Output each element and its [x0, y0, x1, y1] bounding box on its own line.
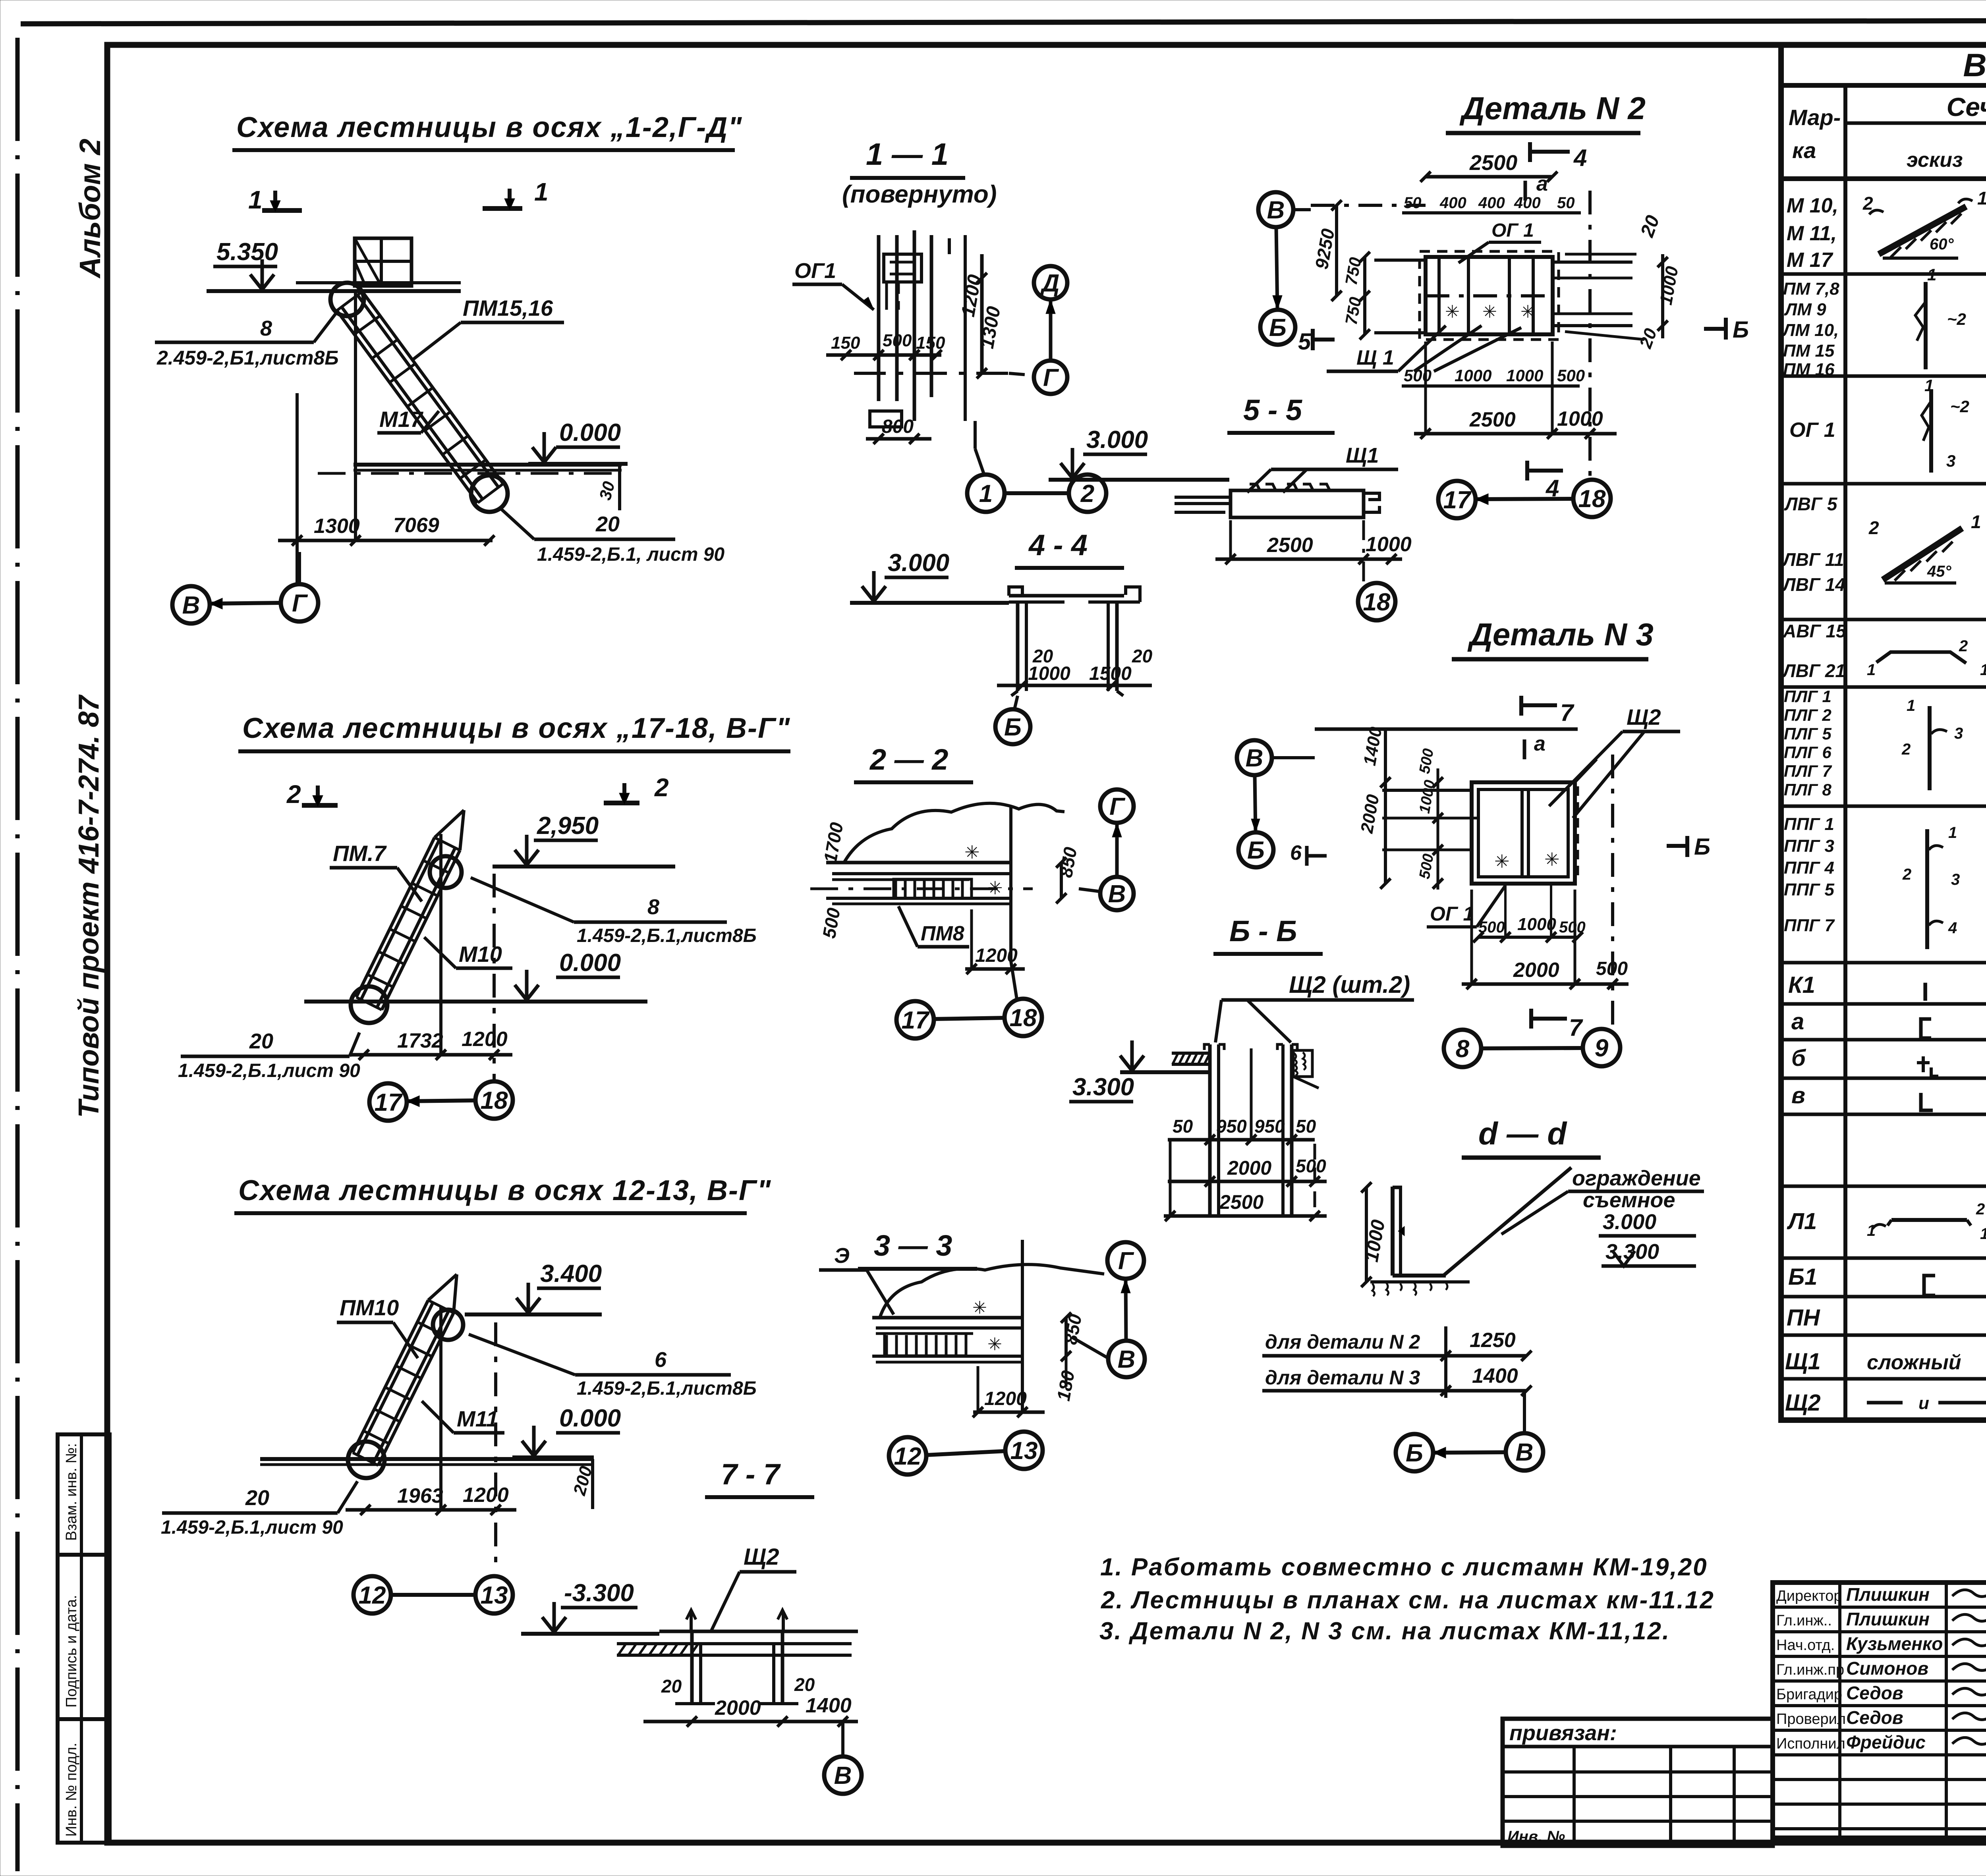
- detail N3 plan: [1382, 759, 1597, 884]
- svg-text:ПЛГ 8: ПЛГ 8: [1784, 780, 1832, 799]
- scheme 1 ref 8 / 2.459-2,Б1,лист86: [155, 314, 339, 369]
- svg-text:1: 1: [1867, 1222, 1876, 1239]
- section 1-1 title: [842, 137, 997, 208]
- svg-text:1.459-2,Б.1,лист 90: 1.459-2,Б.1,лист 90: [178, 1060, 360, 1081]
- svg-text:9: 9: [1595, 1035, 1609, 1062]
- svg-text:Б: Б: [1694, 834, 1710, 860]
- svg-text:18: 18: [481, 1087, 508, 1114]
- svg-text:1500: 1500: [1089, 663, 1132, 684]
- svg-text:М 17: М 17: [1787, 249, 1833, 272]
- detail N2 section mark 5 left: [1298, 329, 1335, 355]
- section d-d label ограждение съемное: [1501, 1166, 1704, 1234]
- scheme 1 ref 20 / 1.459-2,Б.1,лист 90: [501, 509, 724, 565]
- outer sheet border left (dash-dot): [15, 38, 20, 1871]
- svg-text:3.000: 3.000: [1086, 426, 1148, 454]
- svg-text:400: 400: [1478, 194, 1505, 212]
- svg-text:В: В: [182, 592, 200, 619]
- svg-text:Гл.инж..: Гл.инж..: [1776, 1612, 1832, 1629]
- svg-text:1200: 1200: [462, 1028, 508, 1051]
- scheme 1 dimension 1300 7069: [278, 290, 495, 584]
- svg-text:Фрейдис: Фрейдис: [1846, 1732, 1926, 1752]
- svg-text:0.000: 0.000: [559, 949, 621, 977]
- svg-text:ПМ15,16: ПМ15,16: [463, 295, 553, 320]
- svg-text:Г: Г: [292, 590, 308, 617]
- svg-text:Плишкин: Плишкин: [1846, 1584, 1930, 1605]
- scheme 1 label М17: [377, 407, 439, 433]
- svg-text:2000: 2000: [1227, 1157, 1271, 1179]
- svg-text:20: 20: [249, 1029, 273, 1053]
- svg-text:1: 1: [1927, 265, 1936, 284]
- scheme 3 ladder: [353, 1274, 457, 1465]
- section 1-1 dims 1300 1200 vertical: [958, 254, 1005, 378]
- svg-text:Щ1: Щ1: [1346, 444, 1379, 467]
- scheme 3 label ПМ10: [337, 1295, 418, 1358]
- svg-text:2,950: 2,950: [537, 812, 599, 840]
- section 4-4 title: [1015, 529, 1124, 568]
- svg-text:Д: Д: [1040, 270, 1060, 297]
- svg-text:12: 12: [359, 1582, 386, 1609]
- section 5-5 level 3.000: [1049, 426, 1229, 480]
- scheme 1 ladder: [337, 291, 503, 503]
- svg-text:Схема лестницы в осях „1-2,Г: Схема лестницы в осях „1-2,Г-Д": [236, 112, 742, 143]
- svg-text:Директор: Директор: [1776, 1588, 1842, 1604]
- section d-d title: [1462, 1116, 1601, 1158]
- svg-text:✳: ✳: [1520, 302, 1535, 322]
- svg-text:В: В: [1267, 197, 1285, 224]
- detail N3 level line: [1315, 729, 1578, 759]
- svg-text:4 - 4: 4 - 4: [1028, 529, 1088, 562]
- detail N3 title: [1452, 617, 1654, 659]
- svg-text:1.459-2,Б.1,лист8Б: 1.459-2,Б.1,лист8Б: [577, 925, 757, 946]
- svg-text:ППГ 5: ППГ 5: [1784, 880, 1835, 899]
- svg-text:Мар-: Мар-: [1789, 105, 1841, 130]
- section 3-3 label Э: [819, 1244, 894, 1314]
- table col 2: sketches: [1862, 188, 1986, 1413]
- detail N2 left vertical dims: [1311, 200, 1370, 340]
- section 5-5 axis circle 18: [1358, 583, 1395, 620]
- svg-text:ОГ 1: ОГ 1: [1789, 419, 1835, 442]
- detail N2 section mark 4 top: [1530, 142, 1587, 171]
- left margin label: Альбом 2 (rotated): [73, 139, 106, 279]
- svg-text:привязан:: привязан:: [1509, 1721, 1617, 1745]
- scheme 2 level 0.000 and ground: [304, 949, 647, 1002]
- svg-text:и: и: [1918, 1393, 1929, 1413]
- svg-text:500: 500: [883, 331, 912, 350]
- svg-text:2: 2: [1868, 517, 1879, 538]
- section 3-3 axis circles 12 13: [889, 1432, 1043, 1475]
- svg-text:✳: ✳: [1482, 302, 1497, 322]
- svg-text:ОГ 1: ОГ 1: [1430, 903, 1474, 925]
- scheme 2 ref 20 / 1.459-2,Б.1,лист90: [178, 1029, 360, 1081]
- svg-text:✳: ✳: [987, 1335, 1002, 1354]
- detail N2 right dims 20 1000 20: [1565, 212, 1682, 351]
- svg-text:для детали N 2: для детали N 2: [1265, 1331, 1420, 1353]
- svg-text:5: 5: [1298, 329, 1311, 355]
- detail N2 section mark 4 bottom: [1527, 461, 1563, 502]
- svg-text:3.000: 3.000: [888, 549, 949, 577]
- scheme 1 bottom axis dash-dot: [318, 472, 622, 475]
- svg-text:1: 1: [1971, 511, 1981, 532]
- svg-text:2500: 2500: [1469, 151, 1517, 175]
- svg-text:Нач.отд.: Нач.отд.: [1776, 1637, 1835, 1654]
- svg-text:1: 1: [1924, 376, 1934, 395]
- svg-text:3: 3: [1954, 725, 1963, 742]
- svg-text:Б1: Б1: [1788, 1264, 1817, 1290]
- svg-text:13: 13: [481, 1582, 508, 1609]
- scheme 2 axis circles 17 18: [369, 1081, 513, 1121]
- svg-text:1: 1: [248, 185, 263, 214]
- svg-text:ПМ 16: ПМ 16: [1783, 360, 1835, 379]
- svg-text:20: 20: [661, 1676, 682, 1697]
- detail N2 axis circles 17 18: [1438, 480, 1611, 518]
- section 2-2 axis circles 17 18: [896, 961, 1042, 1038]
- svg-text:Взам. инв. №:: Взам. инв. №:: [63, 1443, 80, 1541]
- svg-text:Седов: Седов: [1846, 1683, 1903, 1703]
- scheme 2 ref 8 / 1.459-2,Б.1,лист82: [471, 878, 757, 946]
- svg-text:ПЛГ 7: ПЛГ 7: [1784, 762, 1832, 780]
- svg-text:Схема лестницы в осях 12-13,: Схема лестницы в осях 12-13, В-Г": [238, 1175, 771, 1206]
- svg-text:50: 50: [1557, 194, 1575, 212]
- svg-text:3: 3: [1951, 871, 1960, 888]
- bottom notes: [1099, 1554, 1715, 1645]
- svg-text:Б: Б: [1733, 317, 1749, 343]
- привязан table: [1503, 1719, 1773, 1846]
- svg-text:2500: 2500: [1267, 534, 1313, 557]
- section 7-7 level -3.300: [521, 1579, 659, 1634]
- scheme 3 top node: [433, 1310, 463, 1340]
- scheme 1 top node: [330, 283, 364, 316]
- scheme 3 ref 6 / 1.459-2,Б.1,лист8Б: [469, 1334, 757, 1399]
- svg-text:20: 20: [245, 1486, 269, 1510]
- svg-text:В: В: [1516, 1439, 1534, 1466]
- title block stamp (names): [1773, 1583, 1986, 1838]
- svg-text:17: 17: [902, 1007, 930, 1034]
- svg-text:500: 500: [1296, 1156, 1326, 1176]
- scheme 3 label М11: [422, 1401, 504, 1433]
- section 1-1 axis circles 1 2: [967, 449, 1106, 512]
- svg-text:2: 2: [1901, 741, 1911, 758]
- svg-text:1200: 1200: [984, 1388, 1027, 1409]
- svg-text:ЛВГ 5: ЛВГ 5: [1784, 494, 1838, 514]
- svg-text:а: а: [1534, 732, 1546, 755]
- detail N2 title: [1446, 91, 1646, 133]
- svg-text:Б: Б: [1004, 714, 1022, 741]
- svg-text:1300: 1300: [314, 515, 360, 538]
- svg-text:для детали N 3: для детали N 3: [1265, 1366, 1420, 1389]
- svg-text:0.000: 0.000: [559, 419, 621, 446]
- scheme 1 axis circles В Г: [172, 552, 318, 623]
- svg-text:50: 50: [1296, 1116, 1316, 1137]
- svg-text:45°: 45°: [1927, 563, 1951, 580]
- svg-text:ПМ10: ПМ10: [340, 1295, 399, 1320]
- svg-text:1: 1: [1907, 697, 1915, 714]
- svg-text:1.459-2,Б.1,лист8Б: 1.459-2,Б.1,лист8Б: [577, 1378, 757, 1399]
- section 3-3 title: [858, 1229, 977, 1269]
- svg-text:ОГ 1: ОГ 1: [1491, 220, 1534, 241]
- table header texts: [1789, 92, 1986, 175]
- detail N3 label Щ2: [1549, 704, 1680, 818]
- svg-text:500: 500: [1404, 366, 1432, 385]
- svg-text:ПЛГ 5: ПЛГ 5: [1784, 724, 1832, 743]
- section d-d railing drawing: [1361, 1168, 1571, 1296]
- svg-text:1: 1: [1980, 1225, 1986, 1243]
- svg-text:Альбом 2: Альбом 2: [73, 139, 106, 279]
- svg-text:50: 50: [1173, 1116, 1193, 1137]
- svg-text:3.400: 3.400: [540, 1260, 602, 1287]
- svg-text:1: 1: [1977, 188, 1986, 208]
- svg-text:ЛВГ 11: ЛВГ 11: [1782, 549, 1844, 570]
- svg-text:3 — 3: 3 — 3: [874, 1229, 952, 1262]
- svg-text:Б - Б: Б - Б: [1229, 915, 1297, 948]
- scheme 2 label М10: [424, 937, 512, 968]
- detail N2 dims 50 400 400 400 50: [1402, 194, 1581, 213]
- svg-text:1: 1: [534, 178, 549, 206]
- svg-text:18: 18: [1578, 485, 1606, 513]
- svg-text:1000: 1000: [1455, 366, 1491, 385]
- table col 1: mark labels: [1782, 194, 1847, 1416]
- svg-text:3.300: 3.300: [1072, 1073, 1134, 1101]
- svg-text:1 — 1: 1 — 1: [866, 137, 949, 172]
- detail N3 dims 2000 500: [1462, 755, 1629, 1033]
- svg-text:ПМ 7,8: ПМ 7,8: [1783, 279, 1839, 299]
- section d-d notes для детали: [1262, 1326, 1532, 1398]
- svg-text:400: 400: [1514, 194, 1541, 212]
- svg-text:М 11,: М 11,: [1787, 222, 1837, 245]
- svg-text:Г: Г: [1043, 364, 1059, 392]
- svg-text:ПМ.7: ПМ.7: [333, 841, 387, 866]
- svg-text:Инв. №: Инв. №: [1507, 1828, 1565, 1845]
- svg-text:ПЛГ 6: ПЛГ 6: [1784, 743, 1832, 762]
- svg-text:800: 800: [882, 416, 914, 437]
- svg-text:1963: 1963: [397, 1484, 443, 1507]
- svg-text:✳: ✳: [1445, 302, 1460, 322]
- svg-text:1.459-2,Б.1,лист 90: 1.459-2,Б.1,лист 90: [161, 1517, 343, 1538]
- svg-text:1: 1: [979, 480, 993, 508]
- svg-text:2: 2: [1976, 1200, 1985, 1218]
- detail N3 label ОГ1: [1427, 886, 1505, 927]
- section 6-6 drawing: [1172, 1044, 1319, 1215]
- svg-text:7: 7: [1560, 699, 1575, 726]
- section d-d axis circles Б В: [1396, 1391, 1543, 1471]
- svg-text:В: В: [834, 1762, 852, 1789]
- svg-text:Г: Г: [1109, 793, 1126, 820]
- svg-text:950: 950: [1254, 1116, 1285, 1137]
- svg-text:~2: ~2: [1950, 397, 1969, 416]
- svg-text:Щ1: Щ1: [1785, 1349, 1821, 1374]
- section 4-4 circle Б: [995, 696, 1030, 744]
- svg-text:Бригадир: Бригадир: [1776, 1686, 1842, 1703]
- svg-text:Щ 1: Щ 1: [1356, 346, 1394, 369]
- scheme 1 section marks 1-1: [248, 178, 549, 214]
- svg-text:8: 8: [260, 317, 272, 340]
- svg-text:1200: 1200: [463, 1484, 509, 1507]
- section 3-3 dims: [973, 1312, 1086, 1417]
- svg-text:ЛВГ 21: ЛВГ 21: [1782, 660, 1845, 681]
- svg-text:20: 20: [794, 1674, 815, 1695]
- svg-text:Исполнил: Исполнил: [1776, 1735, 1845, 1752]
- scheme 2 section marks 2-2: [286, 773, 669, 809]
- scheme 1 bottom node: [471, 475, 508, 512]
- scheme 3 ground and level 0.000: [260, 1405, 621, 1509]
- svg-text:Седов: Седов: [1846, 1707, 1903, 1728]
- detail N2 axis circles В Б left: [1258, 192, 1311, 345]
- svg-text:8: 8: [1456, 1035, 1470, 1063]
- svg-text:ПЛГ 2: ПЛГ 2: [1784, 706, 1831, 724]
- svg-text:1000: 1000: [1366, 533, 1412, 556]
- section 5-5 label Щ1: [1247, 444, 1398, 492]
- section 4-4 level 3.000: [850, 549, 1009, 603]
- scheme 2 level 2,950: [493, 812, 675, 867]
- svg-text:17: 17: [1443, 486, 1472, 514]
- svg-text:ППГ 3: ППГ 3: [1784, 836, 1834, 856]
- svg-text:1: 1: [1948, 824, 1957, 841]
- section 3-3 drawing: [872, 1240, 1104, 1414]
- svg-text:7: 7: [1569, 1014, 1583, 1041]
- svg-text:Э: Э: [834, 1244, 850, 1268]
- svg-text:2: 2: [1080, 480, 1094, 508]
- section 7-7 title: [705, 1458, 814, 1497]
- svg-text:Г: Г: [1118, 1247, 1134, 1275]
- left margin label: Типовой проект 416-7-274.87 (rotated): [73, 694, 105, 1118]
- svg-text:Б: Б: [1406, 1440, 1423, 1467]
- svg-text:М11: М11: [457, 1406, 498, 1431]
- svg-text:1: 1: [1867, 661, 1876, 679]
- svg-text:17: 17: [375, 1089, 403, 1116]
- svg-text:400: 400: [1439, 194, 1466, 212]
- svg-text:в: в: [1791, 1083, 1805, 1108]
- svg-text:Ведомость элементов: Ведомость элементов: [1963, 47, 1986, 83]
- scheme 1 ground line and level 0.000: [354, 419, 628, 510]
- svg-text:(повернуто): (повернуто): [842, 181, 997, 208]
- svg-text:2500: 2500: [1469, 408, 1516, 431]
- svg-text:а: а: [1791, 1009, 1804, 1035]
- svg-text:1.459-2,Б.1, лист 90: 1.459-2,Б.1, лист 90: [537, 544, 724, 565]
- section 7-7 drawing: [617, 1610, 858, 1704]
- scheme 2 bottom node: [351, 986, 387, 1023]
- table title text: [1963, 47, 1986, 83]
- scheme 3 bottom node: [348, 1442, 384, 1478]
- svg-text:Л1: Л1: [1787, 1208, 1817, 1234]
- svg-text:В: В: [1118, 1346, 1136, 1373]
- svg-text:АВГ 15: АВГ 15: [1783, 621, 1847, 641]
- svg-text:ограждение: ограждение: [1572, 1166, 1701, 1190]
- svg-text:7 - 7: 7 - 7: [721, 1458, 781, 1491]
- svg-text:Деталь N 3: Деталь N 3: [1467, 617, 1654, 652]
- svg-text:ПМ 15: ПМ 15: [1783, 341, 1835, 361]
- svg-text:8: 8: [647, 895, 659, 919]
- svg-text:Щ2: Щ2: [1785, 1390, 1821, 1416]
- svg-text:4: 4: [1573, 145, 1587, 171]
- detail N2 dim 2500 top: [1420, 151, 1557, 201]
- detail N2 label Щ1 and bottom dims: [1327, 326, 1585, 386]
- left margin stamp cells: [58, 1434, 110, 1843]
- svg-text:5 - 5: 5 - 5: [1243, 394, 1303, 427]
- svg-text:сложный: сложный: [1867, 1351, 1961, 1374]
- svg-text:1250: 1250: [1470, 1329, 1516, 1352]
- svg-text:1. Работать совместно с лист: 1. Работать совместно с листамн КМ-19,20: [1100, 1554, 1708, 1581]
- svg-text:4: 4: [1948, 919, 1957, 937]
- svg-text:2: 2: [286, 780, 301, 809]
- section 6-6 dims 2000 500: [1168, 1156, 1327, 1187]
- detail N2 section mark Б right: [1704, 317, 1749, 343]
- svg-text:Подпись и дата.: Подпись и дата.: [63, 1595, 80, 1708]
- section 2-2 label ПМ8: [898, 906, 969, 947]
- svg-text:13: 13: [1010, 1437, 1038, 1465]
- section 6-6 label Щ2 (шт.2): [1215, 971, 1414, 1042]
- svg-text:В: В: [1246, 745, 1263, 772]
- scheme 2 dimension 1732 1200: [350, 834, 512, 1082]
- detail N3 section mark 7 bottom: [1531, 1009, 1583, 1041]
- svg-text:3: 3: [1946, 452, 1955, 470]
- detail N3 bottom dims 500 1000 500: [1473, 886, 1586, 942]
- svg-text:ка: ка: [1792, 138, 1816, 163]
- section 7-7 label Щ2: [711, 1544, 796, 1631]
- section 1-1 circles Д Г: [1009, 266, 1067, 394]
- section 2-2 title: [854, 743, 973, 782]
- svg-text:М 10,: М 10,: [1787, 194, 1838, 217]
- svg-text:18: 18: [1363, 589, 1391, 616]
- svg-text:6: 6: [655, 1348, 667, 1372]
- scheme 3 ref 20 / 1.459-2,Б.1,лист 90: [161, 1481, 357, 1538]
- svg-text:эскиз: эскиз: [1907, 149, 1963, 172]
- svg-text:ПН: ПН: [1787, 1305, 1820, 1331]
- svg-text:Щ2 (шт.2): Щ2 (шт.2): [1289, 971, 1410, 998]
- section 2-2 drawing: [810, 803, 1064, 961]
- svg-text:Типовой проект 416-7-274. 87: Типовой проект 416-7-274. 87: [73, 694, 105, 1118]
- svg-text:150: 150: [916, 333, 945, 353]
- svg-text:2 — 2: 2 — 2: [869, 743, 948, 776]
- svg-text:Схема лестницы в осях „17-18: Схема лестницы в осях „17-18, В-Г": [242, 712, 790, 744]
- section 6-6 dims 50 950 950 50: [1168, 1048, 1316, 1145]
- svg-text:Плишкин: Плишкин: [1846, 1609, 1930, 1629]
- svg-text:1732: 1732: [397, 1029, 443, 1052]
- scheme 3 level 3.400: [465, 1260, 602, 1314]
- svg-text:20: 20: [595, 512, 620, 536]
- detail N3 section mark 7 top: [1521, 696, 1575, 726]
- section 4-4 dims 20 20 1000 1500: [997, 646, 1153, 691]
- svg-text:I: I: [1922, 977, 1929, 1006]
- svg-text:В: В: [1108, 880, 1126, 908]
- svg-text:Деталь N 2: Деталь N 2: [1459, 91, 1646, 126]
- svg-text:2: 2: [654, 773, 669, 802]
- svg-text:d — d: d — d: [1478, 1116, 1567, 1151]
- section 7-7 dims 20 20 2000 1400: [643, 1674, 858, 1727]
- scheme 2 ladder: [356, 810, 464, 1010]
- svg-text:Сечение: Сечение: [1947, 92, 1986, 122]
- section 6-6 level 3.300: [1069, 1040, 1208, 1102]
- scheme 1 title: [232, 112, 742, 150]
- scheme 3 dimension 1963 1200: [346, 1307, 516, 1573]
- section 5-5 title: [1227, 394, 1335, 433]
- section 2-2 dims: [819, 821, 1081, 974]
- section 3-3 circles Г В: [1072, 1242, 1145, 1377]
- svg-text:2000: 2000: [715, 1697, 761, 1720]
- section 1-1 label ОГ1: [792, 259, 874, 310]
- svg-text:-3.300: -3.300: [564, 1579, 634, 1607]
- svg-text:20: 20: [1132, 646, 1153, 666]
- scheme 2 top node: [430, 856, 462, 888]
- svg-text:5.350: 5.350: [216, 238, 278, 266]
- scheme 1 top platform: [296, 238, 461, 291]
- svg-text:ЛВГ 14: ЛВГ 14: [1782, 574, 1845, 595]
- svg-text:Щ2: Щ2: [1627, 704, 1661, 730]
- element list table: Ведомость элементов: [1781, 45, 1986, 1420]
- svg-text:М17: М17: [379, 407, 424, 432]
- svg-text:500: 500: [1557, 366, 1585, 385]
- detail N3 left dims: [1357, 725, 1443, 890]
- svg-text:Симонов: Симонов: [1846, 1658, 1928, 1679]
- svg-text:7069: 7069: [393, 514, 439, 537]
